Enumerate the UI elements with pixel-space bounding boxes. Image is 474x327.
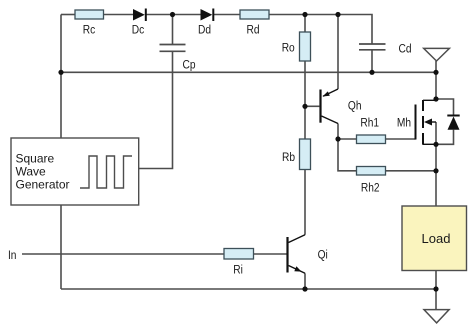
svg-text:Dd: Dd	[198, 24, 211, 37]
svg-text:Generator: Generator	[16, 178, 70, 192]
svg-text:Wave: Wave	[16, 165, 47, 179]
svg-text:Square: Square	[16, 152, 55, 166]
svg-text:Rb: Rb	[282, 151, 295, 164]
svg-text:Ro: Ro	[282, 42, 295, 55]
svg-text:Load: Load	[422, 231, 451, 246]
svg-text:Qi: Qi	[318, 249, 328, 262]
svg-text:Rh2: Rh2	[361, 182, 380, 195]
svg-text:Qh: Qh	[348, 100, 362, 113]
svg-text:Cp: Cp	[182, 59, 195, 72]
svg-text:Ri: Ri	[233, 264, 243, 277]
svg-text:Mh: Mh	[397, 117, 411, 130]
svg-text:In: In	[8, 249, 17, 262]
svg-text:Cd: Cd	[398, 43, 411, 56]
svg-text:Dc: Dc	[132, 24, 145, 37]
svg-text:Rc: Rc	[83, 24, 96, 37]
svg-text:Rd: Rd	[246, 24, 259, 37]
svg-text:Rh1: Rh1	[360, 117, 379, 130]
